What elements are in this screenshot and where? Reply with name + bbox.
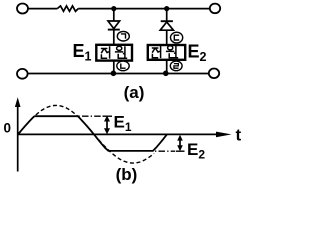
wire node B to terminal T2 — [167, 8, 210, 10]
terminal T3 (bottom-left) — [17, 69, 28, 79]
glyphs 전원 — [152, 46, 178, 58]
label pin ㉣ (circled rieul) — [170, 61, 182, 71]
waveform y-axis — [15, 97, 21, 171]
wire diode D2 to box E2 source — [166, 30, 168, 45]
wire box E1 to node C — [113, 61, 115, 74]
svg-text:(a): (a) — [124, 83, 145, 102]
resistor R1 — [57, 6, 78, 11]
terminal T2 (top-right) — [210, 4, 220, 14]
bottom wire T3 to T4 — [28, 73, 209, 75]
waveform t-axis — [18, 132, 232, 138]
node C junction dot — [111, 71, 117, 77]
terminal T4 (bottom-right) — [209, 69, 219, 79]
svg-text:0: 0 — [4, 121, 12, 136]
solid clipped output wave — [18, 116, 167, 151]
svg-text:t: t — [236, 126, 242, 145]
label E1 — [73, 41, 92, 64]
terminal T1 (top-left) — [17, 4, 28, 14]
svg-text:E2: E2 — [187, 140, 205, 162]
label E1 (waveform) — [114, 113, 132, 135]
wire node A to node B — [114, 8, 167, 10]
dash-dot extension at -E2 clip level — [155, 150, 185, 152]
diode D2 (pointing up) — [160, 21, 173, 30]
E1 dimension arrow — [104, 116, 110, 135]
source box E2 (전원) — [148, 45, 185, 60]
label pin ㉢ (circled digeut) — [171, 32, 183, 43]
node B junction dot — [164, 6, 169, 11]
wire node A to diode D1 — [113, 9, 115, 21]
svg-text:E2: E2 — [188, 42, 207, 65]
wire top-left to resistor — [28, 8, 57, 10]
glyph 전 — [101, 46, 110, 58]
svg-text:E1: E1 — [73, 41, 92, 64]
dashed input sine wave — [18, 105, 154, 163]
node A junction dot — [111, 6, 116, 11]
wire box E2 to node D — [166, 60, 168, 74]
caption (b) — [116, 165, 138, 184]
wire node B to diode D2 — [166, 9, 168, 21]
svg-text:(b): (b) — [116, 165, 138, 184]
label E2 — [188, 42, 207, 65]
diode D1 (pointing down) — [108, 21, 120, 30]
caption (a) — [124, 83, 145, 102]
source box E1 (전원) — [96, 45, 132, 61]
wire diode D1 to box E1 source — [113, 30, 115, 45]
label pin ㉡ (circled nieun) — [117, 61, 129, 71]
label pin ㉠ (circled giyeok) — [117, 31, 129, 41]
E2 dimension arrow — [177, 135, 183, 151]
label t (axis) — [236, 126, 242, 145]
svg-text:E1: E1 — [114, 113, 132, 135]
wire resistor to node A — [78, 8, 114, 10]
glyph 원 — [115, 46, 127, 58]
label 0 (origin) — [4, 121, 12, 136]
label E2 (waveform) — [187, 140, 205, 162]
dash-dot extension at +E1 clip level — [79, 115, 113, 117]
node D junction dot — [163, 71, 169, 77]
